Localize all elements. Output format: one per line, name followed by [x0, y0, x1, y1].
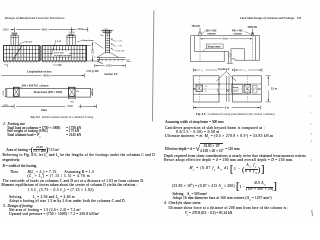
area of footing equation with fraction [6, 145, 59, 154]
svg-text:Fig. 8.2: Fig. 8.2 [31, 115, 41, 119]
stirrup hook ticks below grid [5, 61, 84, 63]
svg-text:Strap beam: Strap beam [82, 39, 93, 42]
stirrup ticks below grid mid [53, 64, 62, 65]
svg-text:4 - # 22: 4 - # 22 [114, 40, 122, 42]
svg-text:2 # 16: 2 # 16 [55, 41, 62, 43]
plan center section verticals [226, 76, 229, 102]
right footing edges (elevation) [256, 36, 260, 61]
svg-text:300 × 900 R.C. column: 300 × 900 R.C. column [22, 84, 49, 87]
column D stub with dowels [66, 33, 76, 45]
5 m dimension (elevation) [200, 38, 253, 41]
plan bottom dimension row [1, 104, 97, 109]
label 400 x 400 column [232, 30, 251, 36]
column C stub with dowels [10, 34, 19, 46]
plan right width dim [91, 89, 93, 96]
bar label 2 # 16 mid with leader [51, 41, 61, 55]
tiny 0.4 m box right column [252, 85, 260, 93]
svg-text:900: 900 [70, 101, 74, 103]
tiny dim 0.4 m right of left box [205, 86, 208, 92]
caption Fig. 8.2 [31, 115, 94, 119]
1200 depth dimension [92, 42, 95, 62]
500 beam width dim [218, 83, 220, 94]
section XX: right end marks 300 [126, 59, 130, 61]
svg-text:6 - # 16: 6 - # 16 [114, 45, 122, 47]
svg-text:1500: 1500 [3, 90, 5, 96]
left footing edges (elevation) [191, 36, 195, 62]
plan left column box hatched [193, 85, 202, 92]
plan beam band lines [193, 84, 261, 94]
center connector with break diamond [227, 49, 233, 63]
1.5 m vertical dimension [265, 76, 277, 102]
5 m bottom dimension [193, 106, 260, 110]
section XX: footing trapezoid with hatch [97, 53, 125, 62]
svg-text:# 10 @ 300: # 10 @ 300 [86, 70, 99, 73]
plan left column box [13, 87, 19, 96]
right page running header [240, 16, 301, 20]
right page edge marks [311, 95, 313, 216]
svg-text:5 m: 5 m [223, 38, 228, 41]
svg-text:4800: 4800 [43, 73, 49, 77]
svg-text:Longitudinal section: Longitudinal section [27, 70, 52, 73]
svg-text:1200: 1200 [92, 49, 95, 55]
load 1000 kN with arrow [247, 26, 257, 35]
svg-text:column: column [207, 32, 216, 35]
plan right column box [69, 87, 76, 96]
plan left pad rect [193, 76, 219, 102]
load 750 kN with arrow [192, 25, 201, 34]
dashed centerlines through plan columns [199, 76, 247, 102]
elevation top line [191, 35, 260, 37]
section XX: column ladder [106, 30, 110, 54]
Mu equation with brackets [190, 164, 266, 175]
right pad bottom with step [231, 59, 260, 60]
svg-text:5 m: 5 m [225, 106, 230, 110]
strap beam boxed label (elevation) [203, 44, 223, 51]
section XX: top bars and text [100, 28, 113, 35]
footing grid panel 2 (longitudinal section right) [42, 46, 86, 62]
dimension 1500 below section [95, 64, 125, 68]
left column stub (elevation) [199, 33, 201, 36]
left page running header [5, 16, 65, 20]
svg-text:#8@200: #8@200 [11, 32, 17, 34]
bar label 4 # 22 with leader [19, 40, 33, 44]
svg-text:1000 kN: 1000 kN [247, 26, 257, 29]
svg-text:4 # 22: 4 # 22 [26, 40, 33, 43]
plan dim 900 under right column [68, 97, 75, 103]
svg-text:1500: 1500 [3, 27, 9, 31]
peak leader between pads [216, 71, 236, 81]
svg-text:500: 500 [218, 88, 220, 92]
svg-text:1500: 1500 [67, 104, 73, 108]
plan view outer band [7, 88, 91, 97]
svg-text:750 kN: 750 kN [192, 25, 200, 28]
svg-text:Combined footing (unsymmetrica: Combined footing (unsymmetrically loaded… [208, 112, 275, 116]
svg-text:#8@200: #8@200 [69, 32, 75, 34]
svg-text:1: 1 [202, 71, 203, 73]
footing grid panel 1 (longitudinal section left) [4, 46, 40, 62]
dimension 4800 lower [2, 73, 85, 77]
plan right pad rect [233, 76, 262, 102]
svg-text:1.5 m: 1.5 m [271, 87, 278, 90]
right column stub (elevation) [251, 33, 253, 36]
caption Fig. 8.6 [196, 112, 275, 116]
right end step of footing [87, 46, 103, 64]
svg-text:to support stirrups: to support stirrups [54, 54, 71, 57]
svg-text:Footing 2: Footing 2 [218, 68, 230, 71]
diagonal leader inside panel 1 [13, 46, 22, 60]
plan top dimension l1 / Footing 2 / l2 [193, 68, 262, 72]
svg-text:Strap beam (450 × 1200): Strap beam (450 × 1200) [34, 91, 63, 94]
svg-text:1500: 1500 [106, 64, 112, 68]
numeric Mu equation [172, 181, 277, 192]
svg-text:1500: 1500 [91, 90, 93, 96]
book gutter line [152, 11, 154, 122]
white label box: # 8 @ 300 to support stirrups [53, 51, 71, 57]
plan label 300 x 900 R.C. column [19, 84, 49, 88]
plan left width dim 1500 [3, 88, 6, 97]
svg-text:column: column [233, 32, 242, 35]
svg-text:Strap: Strap [233, 86, 239, 89]
svg-text:1000: 1000 [3, 104, 9, 108]
svg-text:Plan: Plan [41, 108, 47, 112]
svg-text:600: 600 [76, 91, 79, 93]
svg-text:m: m [253, 90, 255, 92]
effective depth radical equation [165, 143, 240, 154]
svg-text:# 8 @ 300: # 8 @ 300 [114, 50, 125, 52]
strap beam boxed label (plan) [232, 85, 243, 94]
svg-text:1500: 1500 [77, 27, 83, 31]
dashed centerline left column [199, 36, 201, 62]
dimension line top: 1500 / 4800 / 1500 [11, 27, 88, 32]
section XX: leader from strap beam area [95, 42, 104, 48]
svg-text:Reinforcement details in combi: Reinforcement details in combined footin… [42, 115, 94, 119]
svg-text:300: 300 [126, 59, 129, 61]
left pad bottom with step [191, 52, 225, 62]
section XX: bar labels right [111, 38, 125, 52]
plan right column box hatched [244, 85, 251, 93]
svg-text:Section XX: Section XX [104, 73, 117, 76]
label 300 x 300 column [202, 30, 217, 36]
svg-text:Strap beam: Strap beam [208, 45, 221, 48]
svg-text:4800: 4800 [41, 28, 47, 32]
plan dashed beam centerline [193, 88, 261, 90]
beam underside lines (elevation) [195, 49, 245, 60]
joint verticals between panels [40, 46, 42, 62]
strap beam label with leader (long section) [77, 39, 94, 42]
stirrup ticks below grid left [4, 64, 7, 67]
svg-text:m: m [205, 88, 207, 90]
svg-text:Fig. 8.6: Fig. 8.6 [196, 112, 206, 116]
dashed centerline right column [252, 36, 254, 60]
svg-text:2: 2 [245, 71, 246, 73]
svg-text:beam: beam [233, 91, 239, 93]
